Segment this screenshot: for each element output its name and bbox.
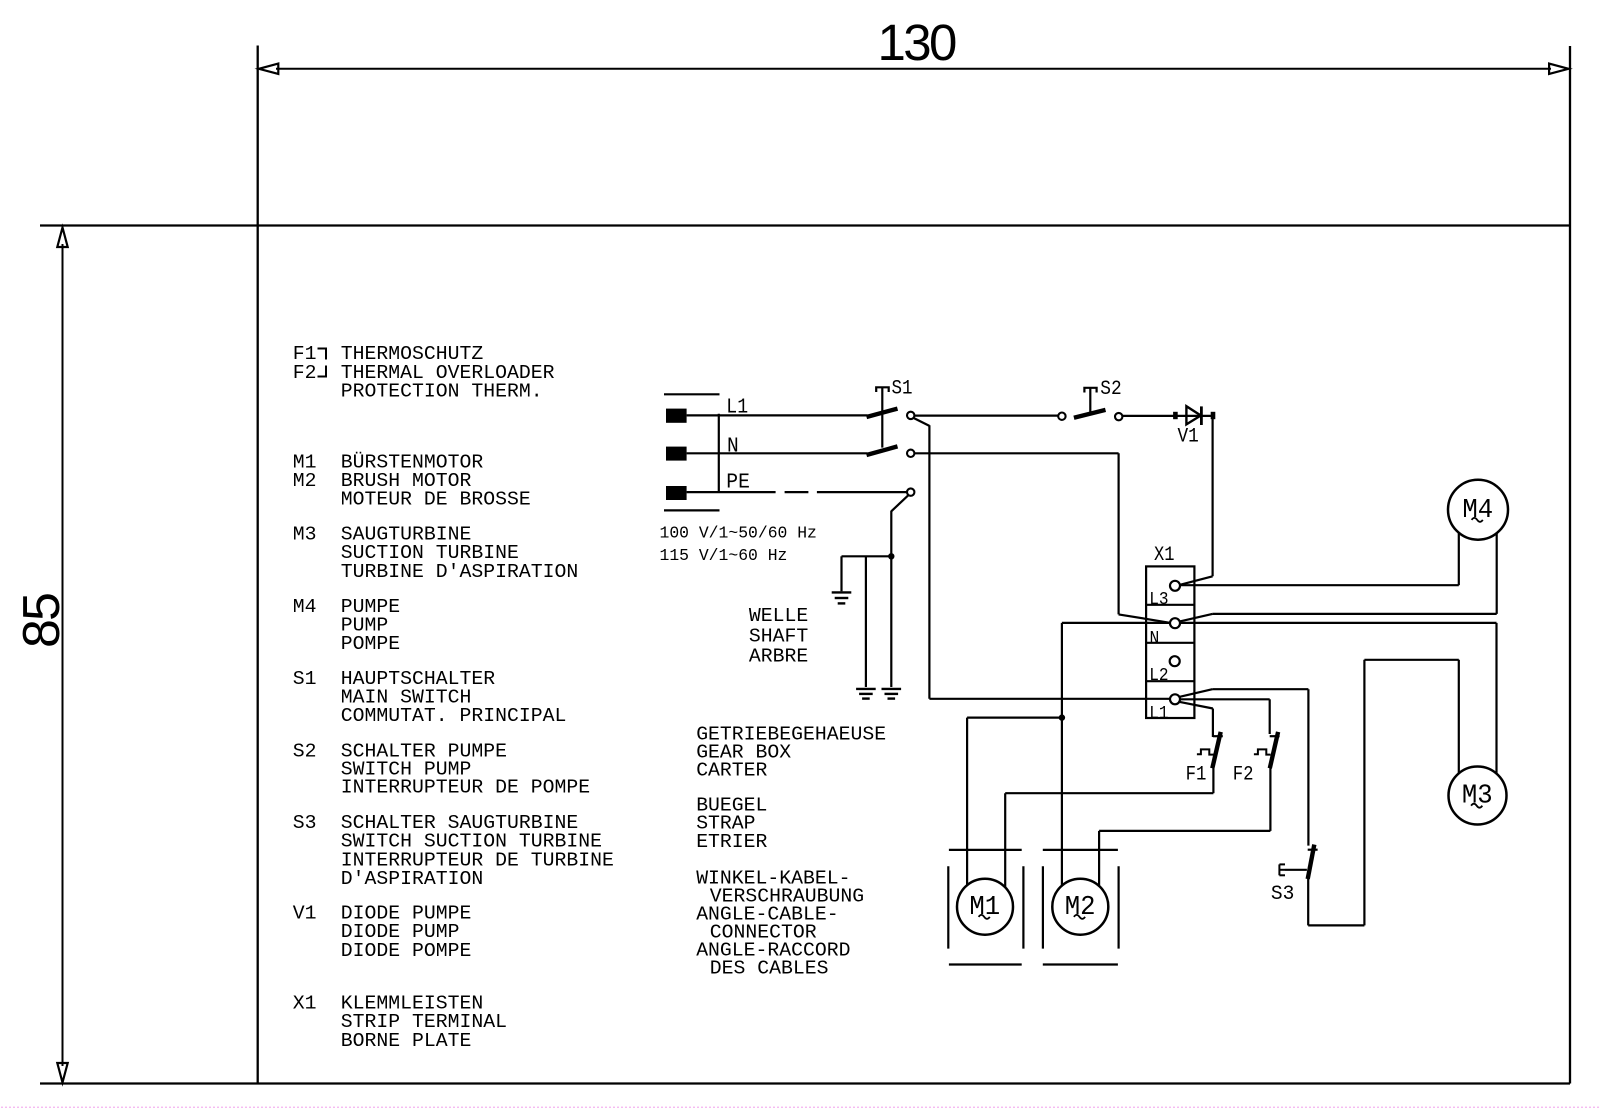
label S3 [1271, 883, 1295, 906]
svg-text:CARTER: CARTER [696, 759, 767, 781]
terminal X1-L3 (circle) [1170, 581, 1180, 591]
terminal X1-L1 (circle) [1170, 694, 1180, 704]
node PE terminal (circle) [907, 488, 914, 495]
label V1 [1178, 426, 1199, 449]
svg-text:V1: V1 [293, 903, 317, 925]
motor M3 circle [1449, 767, 1507, 825]
junction node M1/M2 neutral [1059, 714, 1065, 720]
diode V1 anode tick [1173, 412, 1178, 419]
switch S3 blade [1308, 845, 1315, 879]
wire X1-L1 to F1 [1180, 702, 1213, 737]
svg-text:L3: L3 [1149, 590, 1168, 610]
svg-text:85: 85 [13, 594, 71, 648]
wire F2 to M2 right lead [1099, 768, 1270, 887]
wire PE to earth group [842, 495, 909, 687]
motor M2 circle [1052, 879, 1108, 935]
wire L1 branch S1 to X1-L1 (down) [913, 418, 1170, 699]
svg-text:MOTEUR DE BROSSE: MOTEUR DE BROSSE [341, 489, 531, 511]
wire X1-N to M3 right lead [1180, 623, 1497, 774]
svg-text:INTERRUPTEUR DE POMPE: INTERRUPTEUR DE POMPE [341, 777, 590, 799]
connector terminal pin N [666, 447, 687, 461]
label F2 [1233, 763, 1254, 786]
wire X1-L1 to S3 [1180, 689, 1309, 845]
svg-text:130: 130 [878, 14, 957, 71]
label X1 cell L1 [1149, 704, 1168, 724]
legend M1/M2 brush motor text [293, 450, 531, 510]
frame left vertical line [257, 46, 259, 1084]
switch S3 top tick [1308, 849, 1318, 851]
svg-text:100 V/1~50/60 Hz: 100 V/1~50/60 Hz [660, 524, 817, 543]
wire X1-L1 to F2 [1180, 699, 1270, 734]
thermal overload F2 blade [1270, 732, 1278, 768]
brush motor M2 housing [1043, 850, 1119, 965]
note supply voltage text [660, 524, 817, 566]
ground symbol (lower right) [882, 689, 902, 699]
svg-text:M4: M4 [293, 596, 317, 618]
wire F1 to M1 right lead [1005, 768, 1213, 888]
motor M1 circle [957, 879, 1013, 935]
note angle cable connector text [696, 867, 864, 979]
svg-text:X1: X1 [1154, 544, 1175, 567]
note strap text [696, 795, 767, 853]
connector terminal pin PE [666, 486, 687, 500]
connector housing bottom mark [664, 509, 720, 511]
svg-text:DIODE POMPE: DIODE POMPE [341, 940, 472, 962]
thermal overload F1 element symbol [1197, 749, 1214, 754]
frame right vertical border [1569, 46, 1571, 1084]
thermal overload F1 blade [1212, 732, 1220, 768]
label X1 cell L2 [1149, 666, 1168, 686]
svg-text:ARBRE: ARBRE [749, 646, 808, 668]
wire L1 from connector to S1 [687, 414, 868, 416]
label X1 [1154, 544, 1175, 567]
ground symbol (upper) [832, 592, 852, 603]
svg-text:S2: S2 [1100, 378, 1121, 401]
legend X1 terminal strip text [293, 993, 507, 1052]
legend S1 main switch text [293, 668, 567, 727]
wire junction to M1 left lead [967, 718, 1062, 886]
switch S2 actuator link [1084, 388, 1096, 413]
label S1 [892, 377, 913, 400]
node S1 output N (circle) [907, 450, 914, 457]
terminal strip X1 outline [1146, 566, 1194, 718]
svg-text:F2: F2 [293, 362, 317, 384]
label S2 [1100, 378, 1121, 401]
wire X1-N to M4 right lead [1180, 533, 1497, 621]
svg-text:COMMUTAT. PRINCIPAL: COMMUTAT. PRINCIPAL [341, 705, 567, 727]
switch S1 pole N blade [867, 446, 898, 455]
svg-text:WELLE: WELLE [749, 605, 808, 627]
diode V1 triangle [1186, 406, 1200, 424]
switch S3 actuator symbol [1279, 864, 1307, 875]
legend F1/F2 bracket [318, 349, 327, 377]
switch S2 blade [1074, 410, 1106, 418]
legend S2 pump switch text [293, 741, 590, 799]
label N (supply) [727, 435, 739, 458]
dimension text 85 (rotated) [13, 594, 71, 648]
thermal overload F2 top tick [1270, 735, 1280, 737]
node S1 output L1 (circle) [907, 412, 914, 419]
svg-text:S1: S1 [892, 377, 913, 400]
switch S1 actuator link [876, 387, 889, 447]
svg-text:TURBINE D'ASPIRATION: TURBINE D'ASPIRATION [341, 561, 578, 583]
bottom pink dotted strip [0, 1105, 1600, 1108]
frame bottom horizontal rule [40, 1082, 1570, 1084]
junction PE node [888, 553, 894, 559]
wire S3 to M3 left lead [1308, 660, 1459, 926]
wire X1-N to M1/M2 (left branch) [1062, 623, 1171, 886]
svg-text:S1: S1 [293, 668, 317, 690]
label L1 (supply) [726, 396, 748, 419]
legend M3 suction turbine text [293, 524, 578, 583]
svg-text:F1: F1 [1186, 763, 1207, 786]
wire L1 from S1 to S2 [914, 415, 1058, 417]
dimension text 130 [878, 14, 957, 71]
ground symbol (lower left) [856, 689, 876, 699]
brush motor M1 housing [948, 850, 1023, 965]
label PE (supply) [726, 471, 750, 494]
svg-text:N: N [727, 435, 739, 458]
legend V1 diode text [293, 903, 472, 962]
connector terminal pin L1 [666, 409, 687, 423]
svg-text:ETRIER: ETRIER [696, 831, 767, 853]
svg-text:DES CABLES: DES CABLES [710, 958, 829, 980]
dimension line 130 (horizontal) [259, 64, 1569, 74]
note shaft text [749, 605, 808, 668]
label X1 cell L3 [1149, 590, 1168, 610]
svg-text:POMPE: POMPE [341, 633, 400, 655]
diode V1 cathode tick [1211, 412, 1216, 419]
svg-text:115 V/1~60 Hz: 115 V/1~60 Hz [660, 546, 788, 565]
wire PE dashed from connector to PE node [687, 491, 908, 493]
legend S3 suction switch text [293, 812, 614, 890]
svg-text:M2: M2 [293, 470, 317, 492]
terminal X1-L2 (circle) [1170, 656, 1180, 666]
svg-text:BORNE PLATE: BORNE PLATE [341, 1030, 472, 1052]
svg-text:PE: PE [726, 471, 750, 494]
switch S2 left contact (circle) [1058, 413, 1065, 420]
label X1 cell N [1150, 629, 1160, 649]
diode V1 cathode bar [1200, 406, 1203, 425]
svg-text:SHAFT: SHAFT [749, 625, 808, 647]
svg-text:X1: X1 [293, 993, 317, 1015]
svg-text:N: N [1150, 629, 1160, 649]
legend F1/F2 thermal overload text [293, 343, 555, 403]
terminal X1-N (circle) [1170, 618, 1180, 628]
svg-text:F2: F2 [1233, 763, 1254, 786]
label F1 [1186, 763, 1207, 786]
svg-text:D'ASPIRATION: D'ASPIRATION [341, 868, 483, 890]
frame top horizontal rule [40, 224, 1570, 226]
wire N from S1 to X1-N (right and down) [914, 453, 1170, 623]
thermal overload F1 top tick [1213, 735, 1223, 737]
svg-text:S3: S3 [1271, 883, 1295, 906]
svg-text:PROTECTION THERM.: PROTECTION THERM. [341, 381, 543, 403]
svg-text:L2: L2 [1149, 666, 1168, 686]
svg-text:M3: M3 [293, 524, 317, 546]
svg-text:S2: S2 [293, 741, 317, 763]
legend M4 pump text [293, 596, 400, 655]
svg-text:L1: L1 [1149, 704, 1168, 724]
svg-text:S3: S3 [293, 812, 317, 834]
wire N from connector to S1 [687, 452, 868, 454]
dimension line 85 (vertical) [57, 228, 67, 1083]
motor M4 circle [1448, 480, 1508, 540]
switch S1 pole L1 blade [867, 409, 898, 417]
switch S2 right contact (circle) [1115, 413, 1122, 420]
connector housing top mark [664, 393, 720, 395]
note gear box text [696, 723, 886, 781]
svg-text:V1: V1 [1178, 426, 1199, 449]
thermal overload F2 element symbol [1254, 749, 1271, 754]
wire L1 from S2 to V1 and corner down [1122, 416, 1212, 585]
wire X1-L3 to M4 left lead [1180, 533, 1459, 586]
cable boundary marker [718, 414, 720, 493]
